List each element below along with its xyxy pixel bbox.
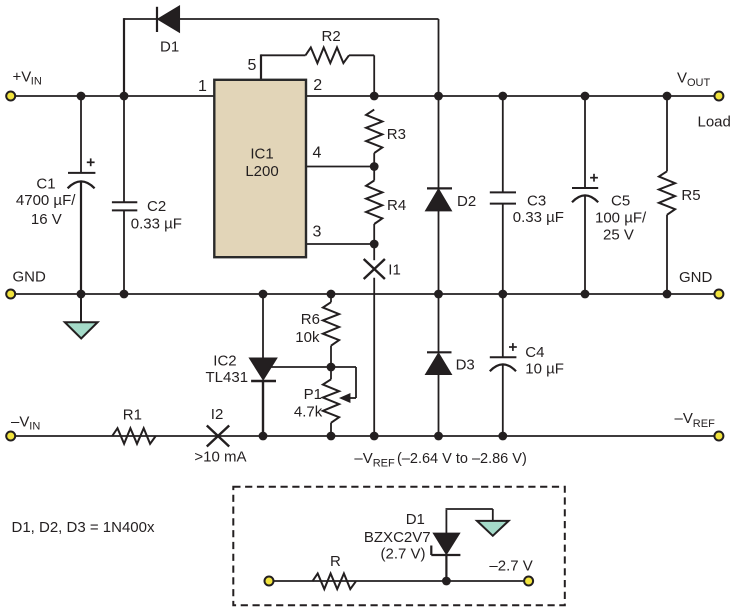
svg-text:R2: R2 [322, 28, 341, 45]
svg-text:R4: R4 [387, 197, 406, 214]
svg-text:+V: +V [13, 69, 32, 86]
svg-text:C1: C1 [36, 175, 55, 192]
svg-text:GND: GND [13, 269, 47, 286]
svg-text:>10 mA: >10 mA [194, 449, 246, 466]
svg-text:R: R [330, 553, 341, 570]
svg-text:P1: P1 [304, 386, 322, 403]
svg-text:(2.7 V): (2.7 V) [381, 546, 426, 563]
svg-text:4.7k: 4.7k [294, 404, 323, 421]
svg-text:R3: R3 [387, 126, 406, 143]
svg-text:C3: C3 [527, 193, 546, 210]
svg-text:I1: I1 [388, 262, 401, 279]
svg-text:3: 3 [313, 224, 322, 241]
svg-text:D3: D3 [456, 356, 475, 373]
svg-text:–V: –V [11, 414, 29, 431]
svg-text:C2: C2 [147, 198, 166, 215]
svg-text:REF: REF [373, 457, 395, 469]
svg-text:R5: R5 [681, 187, 700, 204]
svg-text:IN: IN [29, 421, 40, 433]
svg-text:10k: 10k [295, 329, 320, 346]
svg-text:4: 4 [313, 145, 322, 162]
svg-text:IN: IN [31, 76, 42, 88]
svg-text:4700 µF/: 4700 µF/ [16, 192, 76, 209]
svg-text:5: 5 [248, 57, 257, 74]
svg-text:0.33 µF: 0.33 µF [131, 215, 182, 232]
svg-text:2: 2 [313, 77, 322, 94]
svg-text:D1: D1 [160, 39, 179, 56]
svg-text:–V: –V [354, 450, 372, 467]
svg-text:16 V: 16 V [31, 211, 62, 228]
svg-text:C4: C4 [525, 344, 544, 361]
svg-text:1: 1 [198, 78, 207, 95]
svg-text:(–2.64 V to –2.86 V): (–2.64 V to –2.86 V) [397, 451, 527, 467]
svg-text:I2: I2 [211, 406, 224, 423]
svg-text:GND: GND [679, 269, 713, 286]
svg-text:25 V: 25 V [603, 227, 634, 244]
svg-text:D1: D1 [406, 511, 425, 528]
svg-text:10 µF: 10 µF [525, 361, 564, 378]
svg-text:Load: Load [698, 113, 731, 130]
svg-text:R1: R1 [123, 407, 142, 424]
svg-text:BZXC2V7: BZXC2V7 [364, 529, 431, 546]
svg-text:–2.7 V: –2.7 V [489, 558, 532, 575]
svg-text:R6: R6 [301, 311, 320, 328]
svg-text:IC1: IC1 [250, 146, 273, 163]
svg-text:V: V [677, 70, 687, 87]
svg-text:L200: L200 [245, 163, 278, 180]
svg-text:IC2: IC2 [213, 353, 236, 370]
svg-text:TL431: TL431 [206, 369, 249, 386]
svg-text:C5: C5 [611, 193, 630, 210]
svg-text:OUT: OUT [687, 77, 711, 89]
svg-text:REF: REF [693, 418, 715, 430]
svg-text:0.33 µF: 0.33 µF [513, 209, 564, 226]
svg-text:100 µF/: 100 µF/ [595, 210, 647, 227]
svg-text:D1, D2, D3 = 1N400x: D1, D2, D3 = 1N400x [12, 519, 155, 536]
svg-text:D2: D2 [457, 193, 476, 210]
svg-text:–V: –V [675, 410, 693, 427]
